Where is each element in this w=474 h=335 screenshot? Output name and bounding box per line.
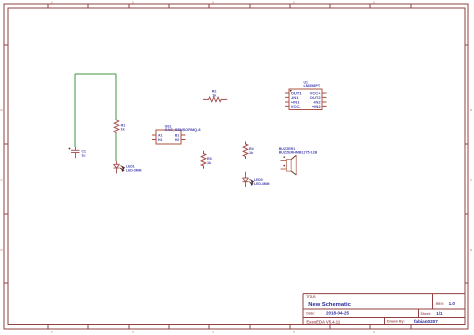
svg-text:REV:: REV: [436, 302, 444, 306]
U1 pin labels [291, 91, 322, 109]
GS1 pins [152, 135, 186, 140]
LED LED1 [114, 161, 142, 174]
svg-text:1u: 1u [82, 153, 86, 157]
svg-text:B1: B1 [175, 133, 180, 137]
capacitor C1 [69, 147, 86, 158]
wire left vertical [74, 74, 76, 147]
U1 corner mark [290, 90, 292, 92]
BUZZER1 pin numbers [283, 156, 285, 166]
BUZZER1 pins [281, 161, 287, 170]
svg-text:BUZZERHMB1275-12B: BUZZERHMB1275-12B [279, 151, 318, 155]
resistor R1 [114, 120, 125, 133]
resistor R2 [203, 89, 227, 101]
resistor R4 [243, 142, 254, 160]
svg-text:H2: H2 [175, 138, 180, 142]
svg-text:Sheet:: Sheet: [421, 312, 431, 316]
svg-text:New Schematic: New Schematic [308, 302, 351, 308]
wire right vertical lower [115, 132, 117, 161]
svg-text:VCC-: VCC- [291, 104, 302, 109]
LED0 arrows [249, 179, 253, 185]
U1 pins [285, 93, 327, 106]
op-amp U1 [285, 80, 327, 109]
C1 plus mark [69, 148, 71, 150]
buzzer BUZZER1 [279, 147, 318, 175]
svg-text:LM358PT: LM358PT [304, 84, 321, 88]
svg-text:A1: A1 [158, 133, 163, 137]
svg-text:GAS_SENSORMQ-8: GAS_SENSORMQ-8 [165, 128, 201, 132]
GS1 pin labels [158, 133, 179, 142]
svg-text:EasyEDA V5.4.11: EasyEDA V5.4.11 [306, 319, 341, 324]
svg-text:2018-04-25: 2018-04-25 [326, 311, 350, 316]
svg-text:Date:: Date: [306, 311, 314, 315]
wire right vertical upper [115, 74, 117, 120]
resistor R3 [201, 151, 212, 169]
gas sensor GS1 [152, 124, 200, 144]
title block [303, 294, 465, 325]
svg-text:Drawn By:: Drawn By: [387, 320, 405, 324]
svg-text:LED-3MM: LED-3MM [254, 182, 270, 186]
BUZZER1 horn slants [291, 155, 296, 175]
svg-text:TITLE:: TITLE: [306, 295, 316, 299]
LED LED0 [243, 172, 270, 187]
svg-text:1.0: 1.0 [449, 301, 456, 306]
wire top horizontal [75, 73, 116, 75]
svg-text:+IN2: +IN2 [312, 104, 321, 109]
LED1 arrows [120, 166, 124, 172]
svg-text:1/1: 1/1 [436, 311, 443, 316]
svg-text:H1: H1 [158, 138, 163, 142]
wire net1 top-left loop [75, 74, 116, 161]
svg-text:fabian0207: fabian0207 [414, 319, 438, 324]
BUZZER1 horn [295, 155, 297, 175]
svg-text:LED-3MM: LED-3MM [126, 168, 142, 172]
